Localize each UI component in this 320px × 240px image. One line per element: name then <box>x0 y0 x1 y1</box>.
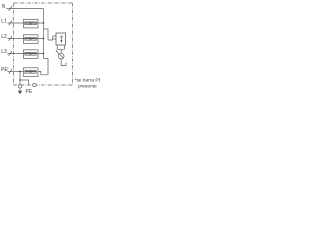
terminal slash N <box>9 6 12 11</box>
terminal slash PE* <box>9 69 12 74</box>
spark gap unit U1 box <box>56 33 66 45</box>
wire PE* <box>8 71 24 73</box>
earth arrow <box>19 88 21 91</box>
enclosure dash-dot frame <box>14 3 73 85</box>
terminal slash L2 <box>9 36 12 41</box>
wire U1 to disconnector <box>60 49 62 53</box>
wire PE branch to terminal <box>20 80 29 85</box>
node L2 label <box>1 34 7 40</box>
svg-text:L3: L3 <box>1 49 7 55</box>
wire disconnector tail <box>61 59 66 66</box>
note text <box>75 77 102 89</box>
wire earth feeder <box>19 72 21 85</box>
node N label <box>2 4 6 10</box>
pin stubs N-PE gap <box>53 36 56 39</box>
svg-text:N: N <box>2 4 6 10</box>
junction dot PE*-earth branch <box>19 71 21 73</box>
svg-text:*: * <box>7 66 9 71</box>
svg-text:L2: L2 <box>1 34 7 40</box>
terminal slash L1 <box>9 21 12 26</box>
pin legs below U1 <box>57 45 64 49</box>
svg-text:L1: L1 <box>1 19 7 25</box>
wire L1 <box>8 22 44 24</box>
arrester box L3 <box>24 50 39 59</box>
arrester box L2 <box>24 35 39 44</box>
disconnector circle <box>58 53 64 59</box>
node PE label <box>26 89 33 95</box>
wire PE* box exit to bus <box>38 59 48 75</box>
wire L3 <box>8 53 44 55</box>
spark gap symbol inside U1 <box>60 35 64 40</box>
junction dot L2-bus <box>43 38 45 40</box>
arrester box PE* <box>24 68 39 77</box>
svg-text:*se barra PE: *se barra PE <box>75 77 100 83</box>
arrester box L1 <box>24 19 39 28</box>
node PE* label <box>1 66 9 73</box>
disconnector arrow <box>57 52 64 59</box>
junction dot L3-bus <box>43 53 45 55</box>
terminal circle PE line <box>33 83 36 86</box>
junction dot earth feeder <box>19 79 21 81</box>
terminal slash L3 <box>9 51 12 56</box>
node L3 label <box>1 49 7 55</box>
wire N horizontal <box>7 8 44 10</box>
junction dot L1-bus <box>43 22 45 24</box>
svg-text:PE: PE <box>26 89 33 95</box>
wire N-L bus vertical <box>43 9 45 59</box>
wire L2 <box>8 38 44 40</box>
terminal circle earth <box>18 85 21 88</box>
svg-text:presente: presente <box>78 84 97 90</box>
wire bus to N-PE gap <box>44 29 53 40</box>
node L1 label <box>1 19 7 25</box>
